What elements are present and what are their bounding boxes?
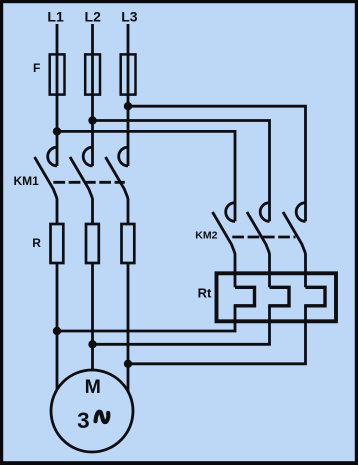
svg-text:L2: L2	[85, 8, 102, 24]
svg-text:L3: L3	[121, 8, 138, 24]
svg-text:F: F	[33, 61, 40, 75]
svg-text:R: R	[32, 236, 41, 250]
svg-text:KM2: KM2	[195, 230, 217, 242]
svg-text:M: M	[85, 376, 101, 398]
svg-text:KM1: KM1	[14, 174, 40, 188]
svg-text:L1: L1	[47, 8, 64, 24]
svg-text:Rt: Rt	[198, 285, 212, 300]
svg-text:3: 3	[77, 408, 90, 433]
